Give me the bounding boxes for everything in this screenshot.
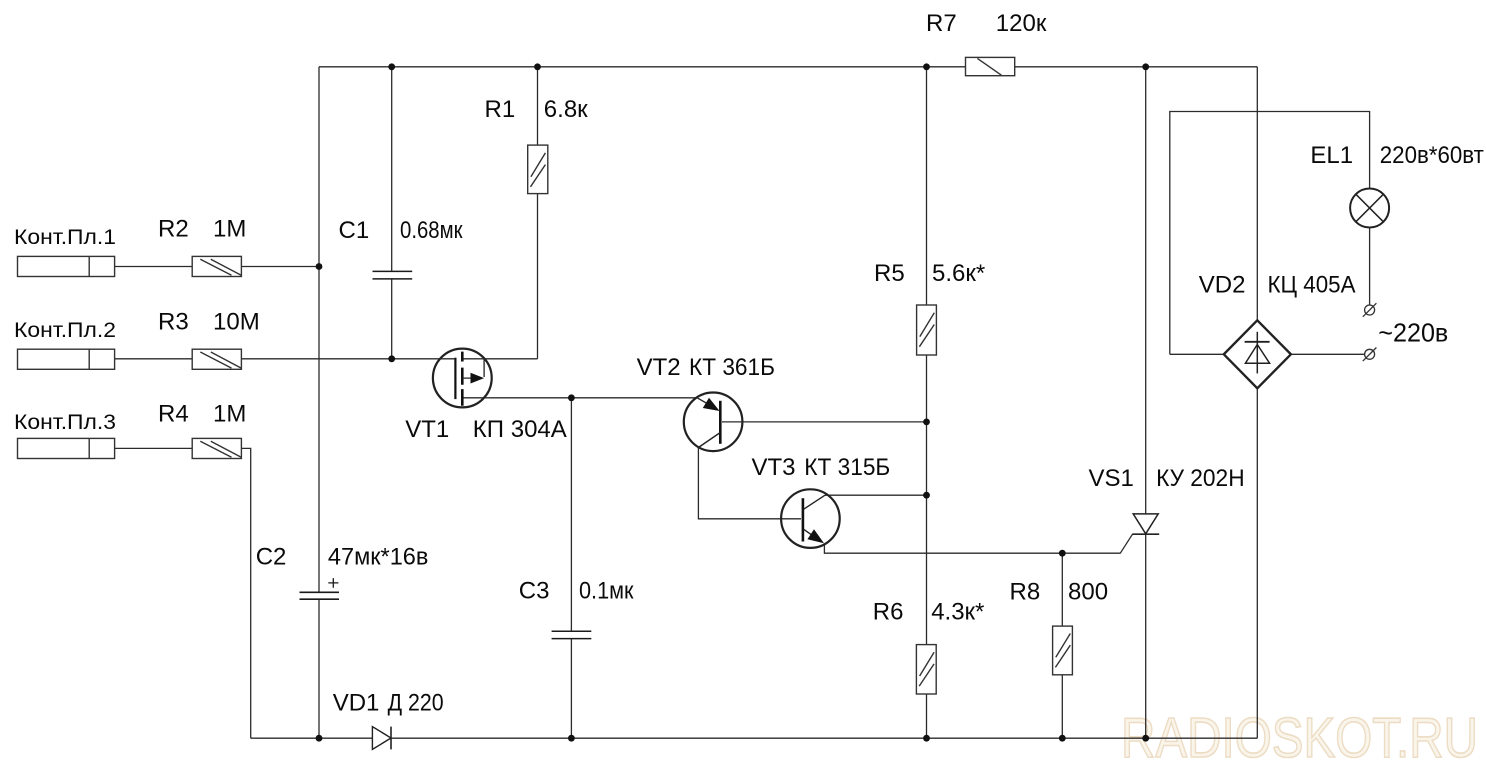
svg-text:VD1: VD1 [333,690,380,717]
svg-text:КЦ 405А: КЦ 405А [1268,272,1356,299]
svg-text:EL1: EL1 [1310,142,1353,169]
svg-text:R2: R2 [158,216,189,243]
svg-text:1М: 1М [213,216,246,243]
svg-text:VD2: VD2 [1199,272,1246,299]
svg-text:120к: 120к [996,10,1047,37]
svg-text:47мк*16в: 47мк*16в [328,544,429,571]
svg-text:КУ 202Н: КУ 202Н [1156,465,1245,492]
svg-text:~220в: ~220в [1378,318,1448,348]
svg-text:Конт.Пл.3: Конт.Пл.3 [14,411,116,434]
svg-text:0.68мк: 0.68мк [400,217,463,244]
svg-text:Д 220: Д 220 [388,690,444,717]
svg-text:R7: R7 [926,10,957,37]
svg-text:10М: 10М [213,309,260,336]
svg-text:VT1: VT1 [405,416,449,443]
svg-text:C1: C1 [339,217,370,244]
svg-text:Конт.Пл.2: Конт.Пл.2 [14,319,116,342]
svg-text:VT3: VT3 [752,454,796,481]
svg-text:R6: R6 [873,599,904,626]
svg-text:1М: 1М [213,401,246,428]
svg-text:R5: R5 [874,260,905,287]
svg-text:Конт.Пл.1: Конт.Пл.1 [14,226,116,249]
svg-text:0.1мк: 0.1мк [579,578,634,605]
svg-text:800: 800 [1068,579,1108,606]
svg-text:RADIOSKOT.RU: RADIOSKOT.RU [1121,706,1478,769]
svg-text:R8: R8 [1010,579,1041,606]
svg-text:R4: R4 [158,401,189,428]
svg-text:КТ 315Б: КТ 315Б [804,454,890,481]
svg-text:КТ 361Б: КТ 361Б [689,354,775,381]
svg-text:КП 304А: КП 304А [473,416,567,443]
svg-text:220в*60вт: 220в*60вт [1380,142,1484,169]
svg-text:5.6к*: 5.6к* [932,260,985,287]
svg-text:VS1: VS1 [1089,465,1134,492]
svg-text:R3: R3 [158,309,189,336]
svg-text:6.8к: 6.8к [544,96,588,123]
svg-text:R1: R1 [485,96,516,123]
svg-text:4.3к*: 4.3к* [931,599,984,626]
svg-text:C3: C3 [519,578,550,605]
svg-text:VT2: VT2 [637,354,681,381]
svg-text:C2: C2 [256,544,287,571]
